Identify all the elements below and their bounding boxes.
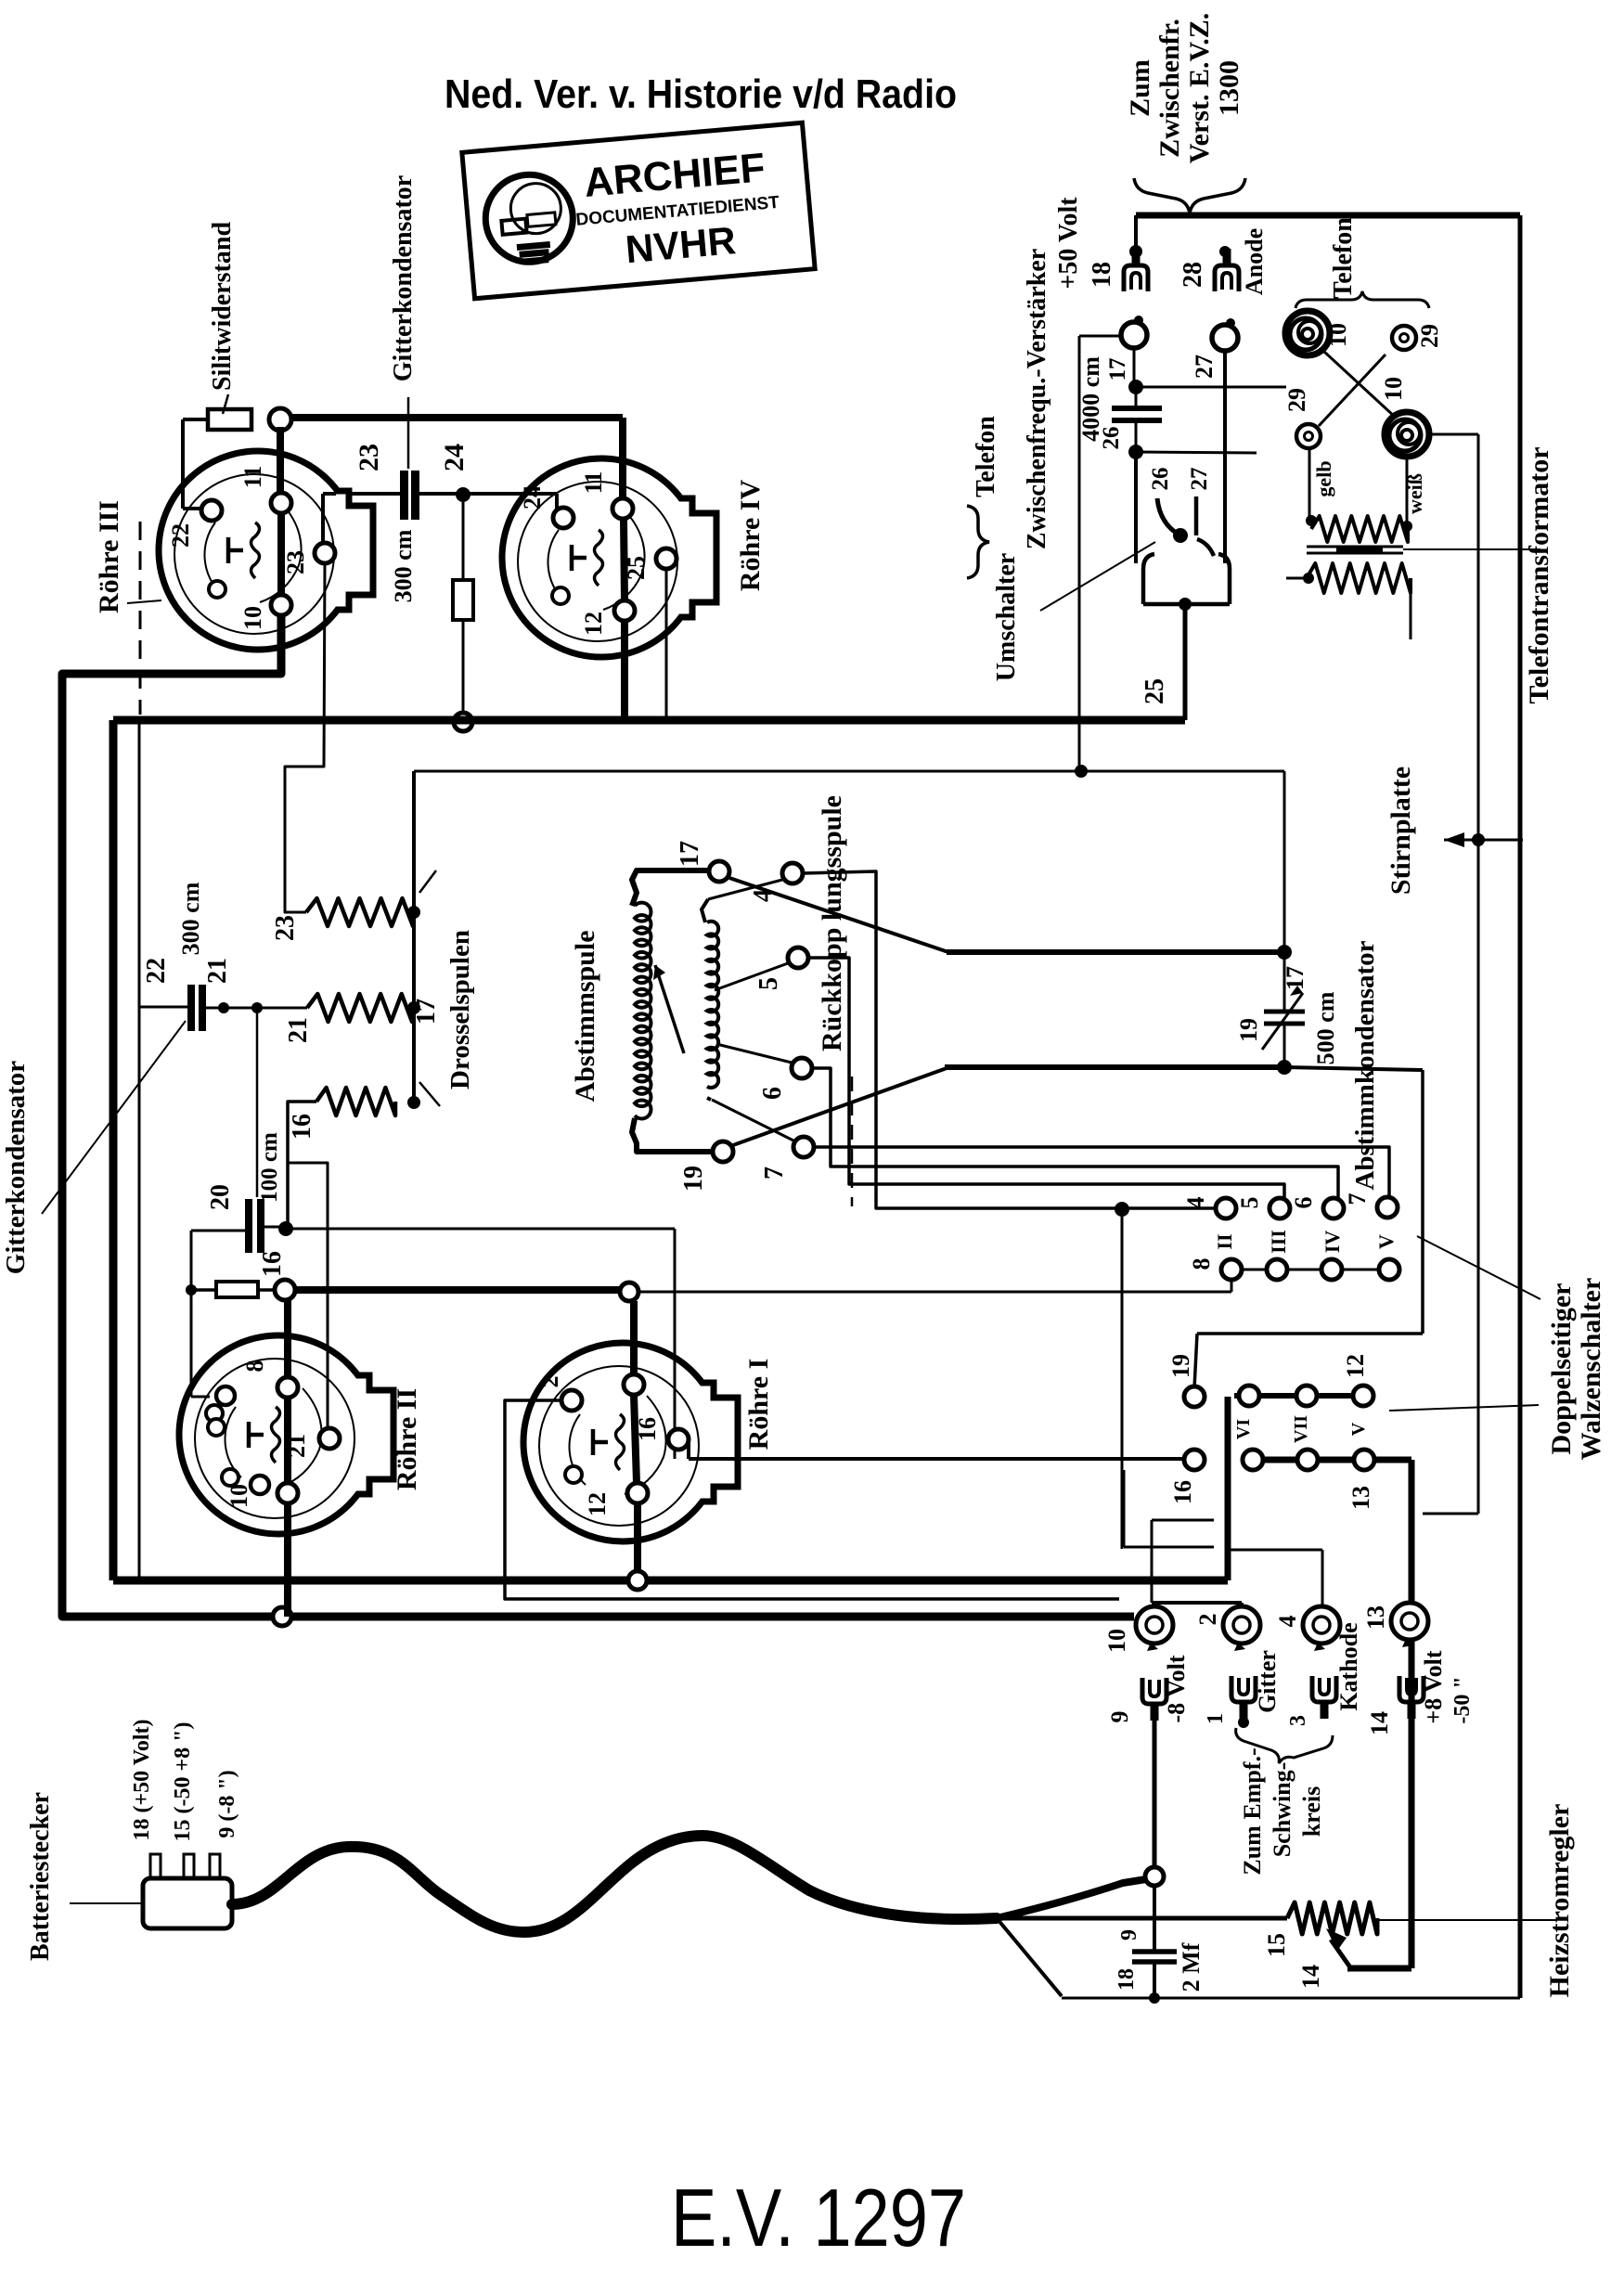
svg-text:10: 10 xyxy=(226,1484,252,1508)
post 13 xyxy=(1391,1603,1428,1640)
svg-text:27: 27 xyxy=(1191,355,1218,379)
pin (nc) xyxy=(552,587,569,604)
svg-text:29: 29 xyxy=(1416,324,1443,348)
wire 26 xyxy=(1136,452,1257,453)
wire grid bus tube II xyxy=(190,1231,193,1397)
svg-text:Anode: Anode xyxy=(1241,228,1268,295)
terminal 19 xyxy=(713,1141,733,1162)
svg-text:Schwing-: Schwing- xyxy=(1269,1762,1295,1858)
wire terminal 5 run xyxy=(808,958,1284,1198)
svg-text:Stirnplatte: Stirnplatte xyxy=(1386,767,1416,895)
terminal 7 xyxy=(793,1137,814,1157)
dashed line left xyxy=(139,522,142,715)
svg-text:19: 19 xyxy=(1235,1018,1262,1042)
wire thin left vertical xyxy=(138,722,141,1578)
wire +50V top xyxy=(1136,213,1520,219)
fork 9 xyxy=(1142,1678,1166,1721)
svg-text:10: 10 xyxy=(1380,377,1407,401)
wire terminal 7 run xyxy=(814,1147,1389,1198)
svg-text:27: 27 xyxy=(1187,468,1212,491)
svg-text:13: 13 xyxy=(1362,1605,1389,1630)
svg-text:Abstimmkondensator: Abstimmkondensator xyxy=(1350,940,1380,1190)
svg-text:1300: 1300 xyxy=(1214,60,1244,116)
svg-text:26: 26 xyxy=(1099,427,1124,450)
terminal 6 xyxy=(792,1058,812,1078)
svg-text:II: II xyxy=(1213,1233,1236,1249)
pin (nc) xyxy=(209,581,226,598)
node heater junction xyxy=(273,1607,291,1626)
svg-text:13: 13 xyxy=(1347,1486,1374,1510)
svg-text:24: 24 xyxy=(519,485,546,509)
svg-text:gelb: gelb xyxy=(1312,460,1335,496)
svg-text:25: 25 xyxy=(1141,678,1169,704)
svg-text:6: 6 xyxy=(758,1087,787,1100)
fork 14 xyxy=(1399,1676,1424,1719)
wire U under tube I xyxy=(505,1400,1119,1599)
capacitor C22 300cm xyxy=(187,985,195,1031)
svg-text:12: 12 xyxy=(584,1492,611,1516)
svg-text:VI: VI xyxy=(1233,1419,1254,1439)
pin top xyxy=(624,1374,644,1395)
wire anode bus top xyxy=(290,414,623,421)
wire weiss xyxy=(1406,457,1409,524)
svg-text:6: 6 xyxy=(1290,1197,1317,1209)
bottom line xyxy=(1062,1997,1520,2000)
svg-text:11: 11 xyxy=(580,471,607,495)
capacitor 2Mf xyxy=(1153,1886,1156,1950)
resistor grid leak xyxy=(191,1288,216,1292)
wire tube III pin10 to heater bus xyxy=(62,615,1134,1617)
post 10 xyxy=(1136,1606,1173,1644)
wire drop x1209 xyxy=(1121,1209,1124,1549)
svg-text:VII: VII xyxy=(1291,1415,1311,1443)
svg-text:17: 17 xyxy=(1282,966,1308,990)
coil arrow xyxy=(655,965,684,1053)
svg-text:2: 2 xyxy=(536,1376,563,1388)
NVHR archive stamp xyxy=(462,122,815,298)
svg-text:22: 22 xyxy=(167,523,194,548)
wire tube IV pin25 drop xyxy=(665,569,668,720)
wire y831 xyxy=(414,770,1284,773)
pin grid xyxy=(216,1386,235,1405)
svg-text:Zwischenfr.: Zwischenfr. xyxy=(1154,19,1185,158)
wire plate bus y1390 xyxy=(295,1286,620,1294)
wire 17 diagonal xyxy=(729,878,948,952)
svg-text:Drosselspulen: Drosselspulen xyxy=(445,930,475,1089)
wire to tube II pin21 xyxy=(288,1163,328,1432)
coil 16 (Drosselspule) xyxy=(316,1088,395,1115)
svg-text:9 (-8 "): 9 (-8 ") xyxy=(215,1770,239,1837)
tube Roehre IV xyxy=(502,458,701,657)
coil Abstimmspule xyxy=(632,870,709,906)
terminal 28 fork xyxy=(1219,246,1231,257)
wire 4 to coil xyxy=(708,880,782,899)
dashed coupling line xyxy=(851,1076,854,1206)
wire tube I cathode xyxy=(634,1503,641,1571)
wire terminal 4 run xyxy=(803,871,1216,1208)
svg-text:18: 18 xyxy=(1115,1968,1139,1991)
svg-text:Batteriestecker: Batteriestecker xyxy=(26,1792,55,1961)
svg-text:28: 28 xyxy=(1179,262,1207,288)
svg-text:Gitterkondensator: Gitterkondensator xyxy=(389,175,418,381)
wire terminal 6 run xyxy=(812,1068,1338,1198)
wire plate y1026 xyxy=(947,949,1284,955)
svg-text:kreis: kreis xyxy=(1298,1786,1325,1837)
switch contact row 8 xyxy=(1231,1269,1389,1271)
wire y776 bus xyxy=(113,716,1185,725)
pin 10 xyxy=(271,595,291,615)
wire jack lower out xyxy=(1429,433,1478,436)
svg-text:23: 23 xyxy=(282,550,309,574)
svg-text:Kathode: Kathode xyxy=(1335,1622,1362,1710)
svg-text:23: 23 xyxy=(354,444,384,471)
svg-text:21: 21 xyxy=(203,958,232,984)
svg-text:16: 16 xyxy=(258,1251,287,1277)
svg-text:Abstimmspule: Abstimmspule xyxy=(570,930,600,1102)
jack 10 upper xyxy=(1285,311,1330,355)
svg-text:Rückkopp lungsspule: Rückkopp lungsspule xyxy=(817,795,847,1051)
svg-text:2: 2 xyxy=(1194,1614,1221,1626)
svg-text:Heizstromregler: Heizstromregler xyxy=(1544,1804,1575,1998)
wire gelb xyxy=(1308,448,1311,521)
ring 29 lower xyxy=(1296,424,1321,448)
resistor 15 Heizstromregler xyxy=(1287,1902,1377,1934)
svg-text:18: 18 xyxy=(1088,262,1116,288)
node grid junction tube II xyxy=(275,1280,295,1300)
svg-text:Zum Empf.-: Zum Empf.- xyxy=(1239,1747,1266,1875)
resistor 300 (vertical) xyxy=(462,502,465,580)
svg-text:14: 14 xyxy=(1297,1965,1324,1989)
arrow Stirnplatte xyxy=(1444,839,1523,842)
node junction 9 xyxy=(1145,1867,1164,1886)
pin 16 xyxy=(668,1429,689,1450)
terminal 5 xyxy=(788,948,808,968)
svg-text:4: 4 xyxy=(1274,1616,1301,1628)
terminal 4 xyxy=(782,863,803,883)
switch cluster upper row xyxy=(1234,1393,1363,1399)
tube Roehre III xyxy=(159,451,357,650)
svg-text:4: 4 xyxy=(1182,1197,1209,1209)
svg-text:18 (+50 Volt): 18 (+50 Volt) xyxy=(130,1719,154,1840)
wire cluster to cathode bus xyxy=(1225,1397,1231,1580)
wire 7 to coil xyxy=(712,1100,793,1141)
svg-text:Röhre III: Röhre III xyxy=(94,500,124,613)
svg-text:IV: IV xyxy=(1321,1231,1344,1254)
post 2 xyxy=(1223,1606,1260,1644)
svg-text:16: 16 xyxy=(634,1417,661,1441)
svg-text:9: 9 xyxy=(1117,1929,1141,1940)
svg-text:24: 24 xyxy=(439,444,470,471)
wire 6 to coil xyxy=(716,1044,792,1063)
resistor Silitwiderstand xyxy=(208,409,251,430)
wire regulator to post 13 xyxy=(1347,1966,1411,1972)
svg-text:15: 15 xyxy=(1263,1933,1290,1957)
svg-text:19: 19 xyxy=(679,1166,708,1192)
svg-text:-8 Volt: -8 Volt xyxy=(1163,1655,1190,1722)
svg-text:7: 7 xyxy=(760,1167,789,1180)
svg-text:weiß: weiß xyxy=(1403,473,1426,514)
coil Rueckkopplungsspule xyxy=(702,899,708,922)
svg-text:21: 21 xyxy=(284,1017,313,1043)
pin bottom xyxy=(627,1483,648,1503)
jack 10 lower xyxy=(1385,412,1429,457)
svg-text:7: 7 xyxy=(1344,1193,1371,1205)
pin 11 xyxy=(612,498,633,519)
wire stub A xyxy=(1152,1519,1214,1522)
terminal 17 xyxy=(709,861,729,882)
svg-text:Telefon: Telefon xyxy=(972,416,1000,497)
svg-text:21: 21 xyxy=(283,1434,310,1458)
svg-text:-50 ": -50 " xyxy=(1450,1676,1475,1723)
svg-text:10: 10 xyxy=(1103,1629,1130,1653)
switch cluster lower row xyxy=(1253,1457,1411,1463)
svg-text:Telefon: Telefon xyxy=(1329,217,1358,299)
wire to post 4 (Kathode) xyxy=(1228,1549,1322,1552)
svg-text:17: 17 xyxy=(1105,358,1130,381)
wire to post 2 xyxy=(1152,1601,1242,1605)
svg-text:12: 12 xyxy=(1342,1354,1369,1378)
svg-text:V: V xyxy=(1374,1234,1398,1249)
svg-text:Umschalter: Umschalter xyxy=(992,553,1021,681)
node ring 27 xyxy=(1212,325,1238,351)
pin 11 xyxy=(271,493,291,513)
wire right border xyxy=(1518,215,1523,1998)
terminal 18 fork xyxy=(1134,215,1138,247)
pointer Heizstromregler xyxy=(1377,1919,1557,1921)
svg-text:12: 12 xyxy=(580,612,607,636)
svg-text:Gitterkondensator: Gitterkondensator xyxy=(1,1061,31,1275)
pin 25 xyxy=(656,548,677,569)
pin 22 xyxy=(201,500,222,521)
svg-text:22: 22 xyxy=(142,958,171,984)
svg-text:Verst. E.V.Z.: Verst. E.V.Z. xyxy=(1184,13,1215,164)
pin 10 xyxy=(251,1476,269,1494)
wire coil16 left xyxy=(288,1102,316,1223)
brace xyxy=(1134,178,1245,213)
svg-text:300 cm: 300 cm xyxy=(390,529,417,602)
svg-text:300 cm: 300 cm xyxy=(177,882,204,955)
svg-text:10: 10 xyxy=(239,606,266,630)
svg-text:500 cm: 500 cm xyxy=(1312,991,1339,1064)
terminal 16b xyxy=(1184,1450,1205,1470)
tube Roehre II xyxy=(179,1335,378,1534)
svg-text:1: 1 xyxy=(1204,1713,1228,1724)
capacitor Abstimmkondensator 500cm (variable) xyxy=(1264,1010,1305,1014)
coil 21 (Drosselspule) xyxy=(307,994,412,1022)
wire to fork 9 xyxy=(1153,1717,1157,1867)
node silit/anode junction xyxy=(269,408,291,431)
svg-text:Röhre I: Röhre I xyxy=(743,1359,774,1450)
terminal 19b xyxy=(1184,1386,1205,1407)
post 4 xyxy=(1303,1606,1340,1644)
svg-text:100 cm: 100 cm xyxy=(257,1132,282,1203)
svg-text:+8 Volt: +8 Volt xyxy=(1420,1650,1447,1723)
svg-text:+50 Volt: +50 Volt xyxy=(1054,197,1083,290)
wire tube IV pin12 drop xyxy=(621,621,628,720)
pin 24 xyxy=(553,508,574,528)
coil 23 (Drosselspule) xyxy=(306,898,413,926)
svg-text:29: 29 xyxy=(1283,388,1310,412)
wire x1211 stub xyxy=(1123,1470,1126,1547)
svg-text:Röhre IV: Röhre IV xyxy=(735,480,766,592)
svg-text:Silitwiderstand: Silitwiderstand xyxy=(208,222,237,391)
battery cable xyxy=(232,1836,997,1932)
svg-text:Doppelseitiger: Doppelseitiger xyxy=(1546,1283,1577,1455)
svg-text:Zum: Zum xyxy=(1125,59,1155,117)
svg-text:8: 8 xyxy=(1188,1258,1215,1270)
wire x1384 drop xyxy=(1283,771,1286,1012)
svg-text:17: 17 xyxy=(676,841,704,867)
node ring 18 xyxy=(1121,322,1147,348)
svg-text:16: 16 xyxy=(288,1114,316,1140)
svg-text:Ned. Ver. v. Historie v/d Radi: Ned. Ver. v. Historie v/d Radio xyxy=(445,71,957,117)
svg-text:3: 3 xyxy=(1286,1715,1310,1726)
pin 23 xyxy=(315,543,335,563)
fork 3 xyxy=(1312,1676,1336,1719)
svg-text:III: III xyxy=(1267,1230,1290,1254)
svg-text:9: 9 xyxy=(1106,1711,1133,1723)
wire y1150 xyxy=(945,1064,1284,1070)
capacitor C20 100cm xyxy=(256,1013,259,1197)
svg-text:23: 23 xyxy=(271,915,300,941)
ring 29 upper xyxy=(1392,326,1416,350)
svg-text:25: 25 xyxy=(623,556,650,580)
capacitor 4000cm xyxy=(1133,348,1136,387)
tube Roehre I xyxy=(523,1343,722,1541)
pin 2 xyxy=(561,1390,582,1411)
node Roehre I cathode junction xyxy=(628,1571,647,1590)
svg-text:16: 16 xyxy=(1169,1480,1196,1504)
wire 5 to coil xyxy=(715,963,788,990)
fork 1 xyxy=(1231,1676,1256,1719)
wire pin23 to coil xyxy=(285,563,325,912)
brace Empf xyxy=(1236,1728,1333,1763)
svg-text:10: 10 xyxy=(1324,323,1351,347)
crossing wires xyxy=(1324,352,1396,418)
svg-text:Walzenschalter: Walzenschalter xyxy=(1576,1278,1606,1461)
switch contact row 4 5 6 7 xyxy=(1216,1198,1236,1218)
pin 21 xyxy=(319,1428,340,1449)
pin 12 xyxy=(614,600,635,621)
pin bottom xyxy=(277,1483,298,1503)
wire pin16 to terminal 16 xyxy=(687,1439,690,1459)
wire 27 drop xyxy=(1223,351,1227,563)
capacitor C 23/24 300cm xyxy=(400,471,408,520)
wire cap20 to tube I grid xyxy=(286,1228,675,1231)
svg-text:Zwischenfrequ.-Verstärker: Zwischenfrequ.-Verstärker xyxy=(1023,249,1051,549)
svg-text:E.V. 1297: E.V. 1297 xyxy=(671,2172,966,2263)
battery plug xyxy=(143,1878,232,1928)
pin 8 xyxy=(277,1377,298,1398)
svg-text:5: 5 xyxy=(754,977,783,990)
transformer Telefontransformator xyxy=(1311,516,1408,542)
svg-text:11: 11 xyxy=(239,466,266,489)
svg-text:5: 5 xyxy=(1236,1197,1263,1209)
wire 25 from switch xyxy=(1183,604,1188,720)
svg-text:26: 26 xyxy=(1148,468,1173,491)
svg-text:V: V xyxy=(1348,1422,1369,1436)
svg-text:14: 14 xyxy=(1366,1711,1393,1735)
svg-text:Gitter: Gitter xyxy=(1254,1650,1281,1713)
svg-text:Telefontransformator: Telefontransformator xyxy=(1524,446,1554,703)
svg-text:19: 19 xyxy=(1167,1354,1194,1378)
svg-text:17: 17 xyxy=(412,999,441,1025)
svg-text:Röhre II: Röhre II xyxy=(392,1388,422,1490)
svg-text:2 Mf: 2 Mf xyxy=(1178,1942,1205,1992)
wire tube II cathode xyxy=(284,1503,291,1617)
svg-text:8: 8 xyxy=(241,1360,268,1373)
wire 19 diagonal xyxy=(733,1068,947,1145)
svg-text:15 (-50 +8 "): 15 (-50 +8 ") xyxy=(171,1722,195,1842)
cable split xyxy=(997,1879,1146,1918)
svg-text:20: 20 xyxy=(206,1184,235,1210)
